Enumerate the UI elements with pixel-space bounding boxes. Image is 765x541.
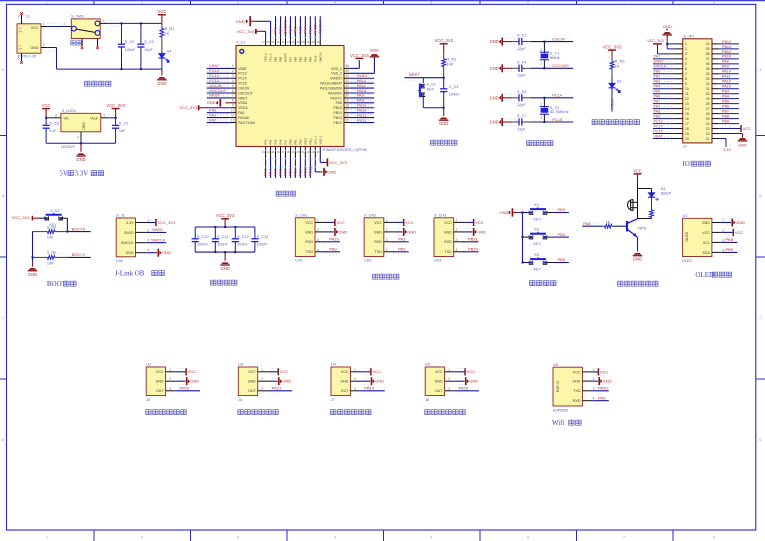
svg-text:10: 10 xyxy=(685,87,689,91)
svg-text:VCC: VCC xyxy=(702,231,710,235)
MCU left pin 3 PC14 xyxy=(231,77,236,79)
svg-text:VCC: VCC xyxy=(248,370,256,374)
svg-text:PB8: PB8 xyxy=(722,115,729,119)
regulator S_LDO1 LDO3V3 xyxy=(61,113,101,132)
svg-text:PA5: PA5 xyxy=(274,139,278,144)
MCU left pin 11 PA1/A0 xyxy=(231,117,236,119)
connector S_J1 J-Link xyxy=(116,218,135,257)
svg-text:VDD_1: VDD_1 xyxy=(318,135,322,144)
svg-text:PC14: PC14 xyxy=(552,93,563,98)
svg-text:PA2: PA2 xyxy=(398,247,406,252)
connector U6 ESP8266 WiFi xyxy=(553,367,582,406)
connector S_CH2 xyxy=(364,218,384,257)
svg-text:PC15: PC15 xyxy=(654,129,663,133)
IO right wire net PA11 xyxy=(720,78,739,80)
svg-text:1: 1 xyxy=(317,218,319,222)
MCU VSS_2 to GND earth xyxy=(349,72,374,74)
capacitor S_C11 100nF xyxy=(214,227,216,239)
svg-text:PA8: PA8 xyxy=(654,110,661,114)
svg-text:SCL: SCL xyxy=(703,241,710,245)
svg-text:PA3: PA3 xyxy=(264,139,268,144)
IO header pin 26 xyxy=(712,113,720,115)
svg-text:PB3: PB3 xyxy=(722,90,729,94)
svg-text:OSCOUT: OSCOUT xyxy=(238,91,253,95)
IO right wire net PB7 xyxy=(720,113,739,115)
svg-text:4: 4 xyxy=(386,248,388,252)
svg-text:R4: R4 xyxy=(19,30,23,34)
emitter wire to GND xyxy=(636,236,637,237)
svg-text:VSSA: VSSA xyxy=(238,101,248,105)
svg-text:1: 1 xyxy=(261,368,263,372)
svg-text:J-Link OB: J-Link OB xyxy=(115,270,145,278)
MCU right pin PA8 xyxy=(344,102,349,104)
MCU bottom pin VDD_1 xyxy=(319,147,321,159)
svg-text:PB10: PB10 xyxy=(468,247,479,252)
LDO pin 1 GND stub xyxy=(80,132,82,140)
net label BOOT1 wire xyxy=(67,256,90,258)
connector U3 IR module xyxy=(238,367,257,396)
U2 VCC power xyxy=(175,371,186,373)
svg-text:PB12: PB12 xyxy=(357,117,368,122)
svg-text:100nF: 100nF xyxy=(449,92,460,96)
svg-text:VCC_3V3: VCC_3V3 xyxy=(158,220,177,225)
svg-text:1: 1 xyxy=(169,368,171,372)
U2 GND power xyxy=(175,380,185,382)
LED D4 xyxy=(161,51,163,53)
MCU bottom pin PB0 xyxy=(289,147,291,159)
svg-text:K3: K3 xyxy=(535,253,540,257)
svg-text:2: 2 xyxy=(593,377,595,381)
svg-text:SWCLK: SWCLK xyxy=(317,19,322,34)
reset bottom rail xyxy=(423,107,443,109)
svg-text:K1: K1 xyxy=(535,203,540,207)
svg-text:PA0: PA0 xyxy=(238,111,244,115)
wire and rotated net label PB11 xyxy=(309,158,311,178)
svg-text:GND: GND xyxy=(339,229,348,234)
key K3 wire to net PB5 xyxy=(547,262,553,264)
svg-text:PA8: PA8 xyxy=(583,221,591,226)
svg-text:2: 2 xyxy=(317,228,319,232)
svg-text:PB5: PB5 xyxy=(722,100,729,104)
wire and net label PA2 xyxy=(207,122,231,124)
svg-text:PA2/TX/A0: PA2/TX/A0 xyxy=(238,121,255,125)
IO header pin 5 xyxy=(674,63,682,65)
svg-text:3: 3 xyxy=(147,239,149,243)
svg-text:100nF: 100nF xyxy=(257,242,268,246)
S_CH3 RXD net PB11 xyxy=(463,241,479,243)
svg-text:12: 12 xyxy=(231,118,235,122)
wire VCC node to LDO xyxy=(46,117,52,119)
svg-text:PC13: PC13 xyxy=(238,72,247,76)
svg-text:GND: GND xyxy=(500,210,509,215)
svg-text:4: 4 xyxy=(685,57,687,61)
svg-text:4: 4 xyxy=(147,249,149,253)
svg-text:3: 3 xyxy=(237,1,239,5)
svg-text:OUT: OUT xyxy=(248,389,256,393)
ground GND filter xyxy=(224,252,226,261)
MCU right pin SWDIO xyxy=(344,77,349,79)
svg-text:LDO3V3: LDO3V3 xyxy=(61,145,75,149)
dash marks across MCU top pins xyxy=(272,30,324,32)
IO header pin 31 xyxy=(712,88,720,90)
svg-text:J8: J8 xyxy=(425,398,429,402)
IO header GND at right row 22 xyxy=(720,133,739,135)
svg-text:VCC_3V3: VCC_3V3 xyxy=(237,29,256,34)
U4 OUT net PB14 xyxy=(360,390,385,392)
svg-text:OSCIN: OSCIN xyxy=(552,36,565,41)
svg-text:PA2: PA2 xyxy=(209,117,217,122)
wire and rotated net label PB9 xyxy=(275,16,277,37)
svg-text:OSCOUT: OSCOUT xyxy=(552,63,570,68)
IO header pin 4 xyxy=(674,58,682,60)
wire and rotated net label PA4 xyxy=(270,158,272,178)
svg-text:7: 7 xyxy=(232,94,234,98)
svg-text:KEY: KEY xyxy=(427,88,435,92)
svg-text:2: 2 xyxy=(540,102,542,106)
caption 复位电路 xyxy=(431,140,436,145)
svg-text:PA8: PA8 xyxy=(336,101,342,105)
svg-text:S_C6: S_C6 xyxy=(517,90,527,94)
svg-text:5: 5 xyxy=(232,84,234,88)
WiFi RXD net PA9 xyxy=(593,400,609,402)
svg-text:PB12: PB12 xyxy=(722,40,731,44)
svg-text:S_C8: S_C8 xyxy=(49,121,59,125)
svg-text:PB7: PB7 xyxy=(289,56,293,62)
svg-text:IO: IO xyxy=(683,145,687,149)
svg-text:PA2: PA2 xyxy=(654,105,661,109)
MCU left pin 4 PC15 xyxy=(231,82,236,84)
svg-text:OLED: OLED xyxy=(685,231,689,241)
MCU right pin VSS_2 xyxy=(344,72,349,74)
OLED VCC power xyxy=(721,231,733,233)
dash marks across MCU bottom pins xyxy=(262,150,325,152)
IO header pin 23 xyxy=(712,128,720,130)
MCU bottom pin PA3 xyxy=(265,147,267,159)
svg-text:8: 8 xyxy=(713,536,715,540)
svg-text:2: 2 xyxy=(64,22,66,26)
S_CH2 GND power xyxy=(394,231,402,233)
LED D2 blue xyxy=(611,78,613,83)
svg-text:GND: GND xyxy=(248,380,256,384)
svg-text:3: 3 xyxy=(386,238,388,242)
IO left wire net PB1 xyxy=(653,78,675,80)
wire and net label PB13 xyxy=(349,117,374,119)
MCU top pin PB8 xyxy=(280,37,282,45)
IO header pin 20 xyxy=(674,138,682,140)
capacitor S_C13 100nF xyxy=(254,227,256,239)
resistor R_R1 1K xyxy=(161,23,163,28)
svg-text:7: 7 xyxy=(623,1,625,5)
svg-text:PA10: PA10 xyxy=(598,386,608,391)
key K2 wire to net PB4 xyxy=(547,236,553,238)
svg-text:IO: IO xyxy=(682,160,689,168)
svg-text:R_R3: R_R3 xyxy=(615,60,625,64)
key K2 KEY xyxy=(522,236,524,238)
svg-text:PB3: PB3 xyxy=(308,56,312,62)
WiFi VCC power xyxy=(593,371,599,373)
svg-text:STM32F103C8T6_LQFP48: STM32F103C8T6_LQFP48 xyxy=(323,148,367,152)
svg-text:PB15: PB15 xyxy=(459,386,470,391)
T1 pin 2 GND stub xyxy=(41,47,47,49)
svg-text:B1: B1 xyxy=(661,187,666,191)
IO header pin 9 xyxy=(674,83,682,85)
svg-text:VCC: VCC xyxy=(373,369,382,374)
LDO pin 3 stub xyxy=(52,117,61,119)
U4 GND power xyxy=(360,380,370,382)
svg-text:41: 41 xyxy=(282,40,286,44)
MCU U1 STM32F103C8T6 body xyxy=(236,46,344,147)
wire and rotated net label PB7 xyxy=(289,16,291,37)
svg-text:VCC: VCC xyxy=(188,369,197,374)
svg-text:VSS_1: VSS_1 xyxy=(313,136,317,145)
svg-text:40: 40 xyxy=(706,42,710,46)
svg-text:VCC: VCC xyxy=(475,220,484,225)
svg-text:29: 29 xyxy=(345,99,349,103)
wire and rotated net label PA7 xyxy=(284,158,286,178)
svg-text:GND: GND xyxy=(157,81,166,86)
svg-text:GND: GND xyxy=(370,48,379,53)
T1 pin 1 VCC stub xyxy=(41,26,47,28)
svg-text:GND: GND xyxy=(435,380,443,384)
svg-text:39: 39 xyxy=(272,40,276,44)
IO header pin 16 xyxy=(674,118,682,120)
MCU top pin BOOT0 xyxy=(284,37,286,45)
WiFi GND power xyxy=(593,380,598,382)
key K3 KEY xyxy=(522,262,524,264)
wire and net label PA0 xyxy=(207,112,231,114)
wire and rotated net label PB4 xyxy=(304,16,306,37)
svg-text:32.768KHz: 32.768KHz xyxy=(550,110,569,114)
svg-text:2: 2 xyxy=(147,228,149,232)
svg-text:GND: GND xyxy=(327,169,336,174)
svg-text:1: 1 xyxy=(46,536,48,540)
OLED SCL net PB8 xyxy=(721,241,737,243)
svg-text:48: 48 xyxy=(316,40,320,44)
wire and net label PA11 xyxy=(349,87,374,89)
svg-text:PB8: PB8 xyxy=(279,56,283,62)
svg-text:BOOT0: BOOT0 xyxy=(284,52,288,62)
svg-text:GND: GND xyxy=(374,230,382,234)
svg-text:PB15: PB15 xyxy=(722,55,731,59)
svg-text:GND: GND xyxy=(126,251,134,255)
S_CH3 GND power xyxy=(464,231,472,233)
wire and net label PA9 xyxy=(349,97,374,99)
IO right wire net PA15 xyxy=(720,88,739,90)
MCU right pin PB14 xyxy=(344,112,349,114)
svg-text:KEY: KEY xyxy=(534,217,542,221)
svg-text:R_R1: R_R1 xyxy=(165,27,175,31)
wire and net label OSCOUT xyxy=(207,92,231,94)
sheet outer border top line xyxy=(0,0,765,2)
caption 晶振电路 xyxy=(527,141,532,146)
svg-text:TXD: TXD xyxy=(573,389,581,393)
connector U2 IR module xyxy=(146,367,165,396)
resistor S_R5 10K xyxy=(33,256,48,258)
svg-text:GND: GND xyxy=(207,100,216,105)
svg-text:1: 1 xyxy=(722,219,724,223)
svg-text:5V: 5V xyxy=(59,170,68,178)
base resistor 1K xyxy=(602,225,604,227)
svg-text:S_C3: S_C3 xyxy=(144,40,154,44)
wire and rotated net label PB0 xyxy=(289,158,291,178)
svg-text:4: 4 xyxy=(334,1,336,5)
wire LDO out to VCC_3V3 node xyxy=(108,117,116,119)
net label PA8 wire xyxy=(582,225,602,227)
MCU bottom pin PB11 xyxy=(309,147,311,159)
power VCC symbol LDO input xyxy=(42,108,50,110)
key K1 KEY xyxy=(522,212,524,214)
svg-text:OUT: OUT xyxy=(156,389,164,393)
svg-text:R1: R1 xyxy=(19,47,23,51)
svg-text:15: 15 xyxy=(685,112,689,116)
svg-text:VCC: VCC xyxy=(600,369,609,374)
svg-text:PC15: PC15 xyxy=(238,82,247,86)
svg-text:40: 40 xyxy=(277,40,281,44)
svg-text:VCC_3V3: VCC_3V3 xyxy=(434,38,453,43)
wire and rotated net label PB2 xyxy=(299,158,301,178)
IO left wire net PA5 xyxy=(653,93,675,95)
svg-text:7: 7 xyxy=(685,72,687,76)
wire and rotated net label SWCLK xyxy=(319,16,321,37)
MCU bottom pin PA6 xyxy=(280,147,282,159)
svg-text:Wifi: Wifi xyxy=(552,419,565,427)
svg-text:VCC: VCC xyxy=(735,230,744,235)
ground GND of power circuit xyxy=(161,69,163,76)
svg-text:10K: 10K xyxy=(47,261,54,265)
OLED SDA net PB9 xyxy=(721,251,737,253)
svg-text:VCC: VCC xyxy=(405,220,414,225)
power VCC alarm xyxy=(634,173,642,175)
capacitor S_C8 1uF xyxy=(45,118,47,126)
MCU left pin 2 PC13 xyxy=(231,72,236,74)
J-Link SWIO net xyxy=(146,231,166,233)
IO left wire net PA1 xyxy=(653,58,675,60)
svg-text:PB4: PB4 xyxy=(722,95,729,99)
IO left wire net PA4 xyxy=(653,88,675,90)
alarm top node wires xyxy=(637,182,639,218)
svg-text:31: 31 xyxy=(706,87,710,91)
svg-text:1: 1 xyxy=(448,368,450,372)
svg-text:12pF: 12pF xyxy=(517,103,526,107)
svg-text:PB3: PB3 xyxy=(558,207,566,212)
S_CH1 VCC power xyxy=(326,221,335,223)
svg-text:1: 1 xyxy=(147,219,149,223)
wire and rotated net label PB6 xyxy=(294,16,296,37)
svg-text:1uF: 1uF xyxy=(119,129,126,133)
svg-text:4: 4 xyxy=(317,248,319,252)
svg-text:VCC: VCC xyxy=(743,126,752,131)
crystal S_Y2 32.768KHz xyxy=(543,98,545,108)
svg-text:4: 4 xyxy=(18,15,20,19)
MCU top pin PB4 xyxy=(304,37,306,45)
net label BOOT0 wire xyxy=(67,231,90,233)
svg-text:VCC_3V3: VCC_3V3 xyxy=(647,39,663,43)
svg-text:PB0: PB0 xyxy=(654,70,661,74)
svg-text:S_R4: S_R4 xyxy=(47,225,57,229)
key S_K2 KEY xyxy=(45,216,49,220)
svg-text:46: 46 xyxy=(306,40,310,44)
svg-text:16: 16 xyxy=(685,117,689,121)
svg-text:3: 3 xyxy=(317,238,319,242)
IO header pin 25 xyxy=(712,118,720,120)
MCU right pin PA9/TX xyxy=(344,97,349,99)
svg-text:PA12/USB/DP: PA12/USB/DP xyxy=(320,82,342,86)
IO header pin 27 xyxy=(712,108,720,110)
svg-text:19: 19 xyxy=(685,132,689,136)
svg-text:PB11: PB11 xyxy=(307,166,312,176)
svg-text:100nF: 100nF xyxy=(125,48,136,52)
svg-text:2: 2 xyxy=(169,377,171,381)
MCU right pin PB15 xyxy=(344,107,349,109)
IO header pin 34 xyxy=(712,73,720,75)
svg-text:VCC: VCC xyxy=(374,221,382,225)
wire and rotated net label PA6 xyxy=(280,158,282,178)
WiFi TXD net PA10 xyxy=(593,390,609,392)
MCU left pin 5 OSCIN xyxy=(231,87,236,89)
svg-text:B: B xyxy=(759,194,761,198)
svg-text:3: 3 xyxy=(354,387,356,391)
IO right wire net PB5 xyxy=(720,103,739,105)
wire and rotated net label PB5 xyxy=(299,16,301,37)
svg-text:TXD: TXD xyxy=(445,250,453,254)
svg-text:38: 38 xyxy=(267,40,271,44)
wire and net label NRST xyxy=(207,97,231,99)
svg-text:3.3V: 3.3V xyxy=(723,148,731,152)
MCU right pin PA10/RX xyxy=(344,92,349,94)
svg-text:PB15: PB15 xyxy=(334,106,342,110)
svg-text:2: 2 xyxy=(232,69,234,73)
svg-text:1K: 1K xyxy=(615,65,620,69)
svg-text:1: 1 xyxy=(540,116,542,120)
svg-text:S_R5: S_R5 xyxy=(47,251,57,255)
svg-text:PA9: PA9 xyxy=(598,396,606,401)
svg-text:VCC: VCC xyxy=(305,221,313,225)
capacitor C_C4 100nF xyxy=(443,78,445,89)
IO header pin 35 xyxy=(712,68,720,70)
svg-text:S_JP1: S_JP1 xyxy=(683,34,694,38)
svg-text:29: 29 xyxy=(706,97,710,101)
svg-text:PB8: PB8 xyxy=(726,237,734,242)
U5 GND power xyxy=(454,380,464,382)
svg-text:1: 1 xyxy=(46,1,48,5)
svg-text:S_CH1: S_CH1 xyxy=(295,213,307,217)
IO header pin 37 xyxy=(712,58,720,60)
IO header pin 15 xyxy=(674,113,682,115)
svg-text:S_U1: S_U1 xyxy=(236,40,246,44)
svg-text:2: 2 xyxy=(103,113,105,117)
switch caption 开关 xyxy=(71,41,76,45)
svg-text:34: 34 xyxy=(706,72,710,76)
MCU right pin PB13 xyxy=(344,117,349,119)
svg-text:NRST: NRST xyxy=(209,93,220,98)
MCU top pin PB3 xyxy=(309,37,311,45)
U3 OUT net PB13 xyxy=(267,390,292,392)
svg-text:PC13: PC13 xyxy=(609,98,614,109)
LDO pin 2 stub xyxy=(101,117,108,119)
wire and rotated net label PA5 xyxy=(275,158,277,178)
svg-text:Link: Link xyxy=(116,259,123,263)
svg-text:PA6: PA6 xyxy=(654,95,661,99)
wire and net label VBAT xyxy=(207,67,231,69)
IO header pin 17 xyxy=(674,123,682,125)
svg-text:GND: GND xyxy=(282,379,291,384)
svg-text:PA12: PA12 xyxy=(722,80,731,84)
svg-text:25: 25 xyxy=(345,118,349,122)
capacitor S_C12 100nF xyxy=(234,227,236,239)
svg-text:4: 4 xyxy=(334,536,336,540)
svg-text:18: 18 xyxy=(685,127,689,131)
svg-text:GND: GND xyxy=(663,24,672,29)
